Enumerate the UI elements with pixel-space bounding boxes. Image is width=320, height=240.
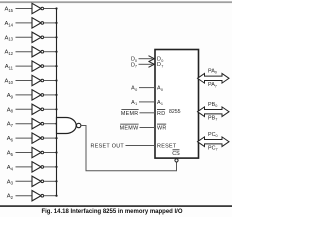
wire A15 inverter output to bus bbox=[44, 8, 57, 10]
inverter (NOT gate) for A12 bbox=[32, 47, 44, 57]
wire A12 inverter output to bus bbox=[44, 51, 57, 53]
external label A0 / wire bbox=[131, 86, 155, 92]
svg-text:RESET: RESET bbox=[157, 144, 177, 150]
wire A13 input bbox=[16, 36, 33, 38]
junction dot A3 on bus bbox=[55, 180, 57, 182]
pin label WR (active low) bbox=[157, 124, 167, 131]
junction dot A11 on bus bbox=[55, 65, 57, 67]
junction dot A14 on bus bbox=[55, 22, 57, 24]
junction dot A8 on bus bbox=[55, 108, 57, 110]
svg-text:RD: RD bbox=[157, 111, 165, 117]
svg-text:A10: A10 bbox=[4, 79, 13, 85]
wire A6 inverter output to bus bbox=[44, 137, 57, 139]
wire A7 input bbox=[16, 123, 33, 125]
inverter (NOT gate) for A11 bbox=[32, 61, 44, 71]
svg-text:A2: A2 bbox=[7, 194, 14, 200]
port PC bidirectional bus arrow bbox=[198, 137, 230, 147]
wire A5 input bbox=[16, 152, 33, 154]
inverter (NOT gate) for A5 bbox=[32, 147, 44, 157]
junction dot A9 on bus bbox=[55, 94, 57, 96]
svg-text:WR: WR bbox=[157, 126, 167, 132]
wire A4 input bbox=[16, 166, 33, 168]
inverter (NOT gate) for A14 bbox=[32, 18, 44, 28]
junction dot A6 on bus bbox=[55, 137, 57, 139]
wire A2 input bbox=[16, 195, 33, 197]
inverter (NOT gate) for A3 bbox=[32, 176, 44, 186]
inverter (NOT gate) for A13 bbox=[32, 32, 44, 42]
wire A3 input bbox=[16, 180, 33, 182]
junction dot A5 on bus bbox=[55, 151, 57, 153]
svg-text:Fig. 14.18 Interfacing 8255 in: Fig. 14.18 Interfacing 8255 in memory ma… bbox=[41, 209, 182, 215]
active-low bubble on CS pin bbox=[175, 159, 178, 162]
wire A10 inverter output to bus bbox=[44, 80, 57, 82]
svg-text:A12: A12 bbox=[4, 50, 13, 56]
inverter (NOT gate) for A2 bbox=[32, 191, 44, 201]
external label MEMW (active low) / wire bbox=[120, 124, 155, 131]
svg-text:A8: A8 bbox=[7, 107, 14, 113]
wire A11 inverter output to bus bbox=[44, 65, 57, 67]
caption separator rule bbox=[0, 205, 232, 207]
pin label CS (active low) bbox=[172, 150, 180, 157]
junction dot A7 on bus bbox=[55, 123, 57, 125]
wire A2 inverter output to bus bbox=[44, 195, 57, 197]
inverter (NOT gate) for A4 bbox=[32, 162, 44, 172]
wire A14 input bbox=[16, 22, 33, 24]
inverter (NOT gate) for A8 bbox=[32, 104, 44, 114]
wire A8 input bbox=[16, 108, 33, 110]
junction dot A15 on bus bbox=[55, 7, 57, 9]
top page border line bbox=[0, 1, 232, 3]
port PA bidirectional bus arrow bbox=[198, 74, 230, 84]
wire/arrow D7 into chip bbox=[139, 61, 155, 67]
external label RESET OUT / wire bbox=[91, 144, 155, 150]
svg-text:CS: CS bbox=[172, 151, 180, 157]
wire A15 input bbox=[16, 8, 33, 10]
junction dot A2 on bus bbox=[55, 195, 57, 197]
external label A1 / wire bbox=[131, 100, 155, 106]
svg-text:A13: A13 bbox=[4, 35, 13, 41]
wire/arrow D0 into chip bbox=[139, 56, 155, 62]
svg-text:A7: A7 bbox=[7, 122, 14, 128]
svg-text:RESET OUT: RESET OUT bbox=[91, 144, 125, 150]
wire A11 input bbox=[16, 65, 33, 67]
svg-text:A4: A4 bbox=[7, 165, 14, 171]
svg-text:A15: A15 bbox=[4, 7, 13, 13]
wire NAND output to 8255 CS pin bbox=[81, 126, 177, 171]
wire A10 input bbox=[16, 80, 33, 82]
inverter (NOT gate) for A10 bbox=[32, 75, 44, 85]
svg-text:MEMR: MEMR bbox=[121, 111, 139, 117]
wire A7 inverter output to bus bbox=[44, 123, 57, 125]
vertical bus collecting inverter outputs bbox=[56, 9, 58, 196]
external label MEMR (active low) / wire bbox=[121, 109, 155, 116]
wire A14 inverter output to bus bbox=[44, 22, 57, 24]
port PB bidirectional bus arrow bbox=[198, 107, 230, 117]
svg-text:A5: A5 bbox=[7, 151, 14, 157]
NAND gate (address decoder) bbox=[57, 118, 81, 134]
wire A9 inverter output to bus bbox=[44, 94, 57, 96]
wire A5 inverter output to bus bbox=[44, 152, 57, 154]
svg-text:8255: 8255 bbox=[169, 109, 181, 115]
inverter (NOT gate) for A15 bbox=[32, 3, 44, 13]
junction dot A10 on bus bbox=[55, 79, 57, 81]
junction dot A12 on bus bbox=[55, 51, 57, 53]
wire A12 input bbox=[16, 51, 33, 53]
svg-text:A11: A11 bbox=[5, 64, 14, 70]
svg-text:A6: A6 bbox=[7, 136, 14, 142]
wire A3 inverter output to bus bbox=[44, 180, 57, 182]
svg-text:A14: A14 bbox=[4, 21, 13, 27]
wire A9 input bbox=[16, 94, 33, 96]
pin label RD (active low) bbox=[157, 109, 165, 116]
wire A13 inverter output to bus bbox=[44, 36, 57, 38]
junction dot A4 on bus bbox=[55, 166, 57, 168]
svg-text:MEMW: MEMW bbox=[120, 126, 139, 132]
wire A8 inverter output to bus bbox=[44, 108, 57, 110]
svg-text:A3: A3 bbox=[7, 179, 14, 185]
wire A6 input bbox=[16, 137, 33, 139]
inverter (NOT gate) for A7 bbox=[32, 119, 44, 129]
8255 PPI chip body bbox=[155, 50, 199, 159]
wire A4 inverter output to bus bbox=[44, 166, 57, 168]
inverter (NOT gate) for A6 bbox=[32, 133, 44, 143]
junction dot A13 on bus bbox=[55, 36, 57, 38]
svg-text:A9: A9 bbox=[7, 93, 14, 99]
inverter (NOT gate) for A9 bbox=[32, 90, 44, 100]
